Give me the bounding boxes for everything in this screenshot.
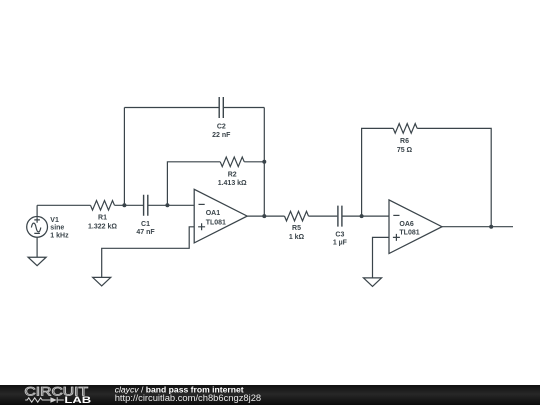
- svg-text:V1: V1: [50, 217, 59, 224]
- svg-text:http://circuitlab.com/ch8b6cng: http://circuitlab.com/ch8b6cngz8j28: [115, 392, 261, 403]
- wire C2 loop top left: [124, 107, 218, 109]
- resistor R1: [91, 201, 115, 211]
- svg-text:R2: R2: [228, 171, 237, 178]
- wire C3 to OA6 minus: [343, 215, 390, 217]
- resistor R6: [393, 124, 417, 134]
- footer bar: [0, 385, 540, 405]
- junction node after R1: [122, 203, 126, 207]
- voltage source V1: [27, 217, 48, 238]
- svg-text:1 kHz: 1 kHz: [50, 232, 69, 239]
- svg-text:47 nF: 47 nF: [136, 229, 155, 236]
- wire R6 right to output: [417, 128, 491, 226]
- capacitor C3: [338, 206, 342, 227]
- wire C1 to OA1 minus: [148, 204, 194, 206]
- wire V1 to R1: [37, 204, 90, 206]
- ground below OA1 plus: [93, 277, 111, 286]
- op-amp OA6: [389, 200, 442, 254]
- junction node C3 right: [360, 214, 364, 218]
- junction node R2 right: [262, 160, 266, 164]
- ground below OA6 plus: [364, 278, 382, 287]
- junction node OA1 output: [262, 214, 266, 218]
- wire V1 to ground: [36, 237, 38, 257]
- wire OA6 plus input to ground: [373, 237, 390, 278]
- svg-text:C1: C1: [141, 221, 150, 228]
- wire OA1 plus input to ground: [102, 227, 195, 278]
- svg-text:LAB: LAB: [64, 395, 91, 405]
- junction node after C1: [165, 203, 169, 207]
- svg-text:1 µF: 1 µF: [333, 240, 348, 247]
- wire R2 left: [167, 162, 220, 206]
- wire R6 loop left vertical: [362, 128, 394, 216]
- svg-text:OA6: OA6: [399, 221, 414, 228]
- resistor R2: [220, 157, 244, 167]
- wire OA6 output: [442, 226, 513, 228]
- svg-text:TL081: TL081: [206, 220, 226, 227]
- svg-text:1 kΩ: 1 kΩ: [289, 234, 305, 241]
- wire C2 loop right vertical: [263, 108, 265, 217]
- wire R5 to C3: [309, 215, 338, 217]
- wire OA1 output: [247, 215, 284, 217]
- wire C2 loop left vertical: [123, 108, 125, 206]
- op-amp OA1: [194, 189, 247, 243]
- ground below V1: [28, 257, 46, 266]
- svg-text:1.413 kΩ: 1.413 kΩ: [218, 180, 247, 187]
- svg-text:R6: R6: [400, 138, 409, 145]
- svg-text:R5: R5: [292, 225, 301, 232]
- svg-text:22 nF: 22 nF: [212, 132, 231, 139]
- capacitor C1: [144, 195, 148, 216]
- svg-text:C2: C2: [217, 124, 226, 131]
- CircuitLab logo symbol: resistor-diode line: [25, 397, 64, 403]
- svg-text:C3: C3: [335, 231, 344, 238]
- wire C2 loop top right: [224, 107, 264, 109]
- svg-text:sine: sine: [50, 225, 64, 232]
- svg-text:75 Ω: 75 Ω: [397, 147, 413, 154]
- wire R2 right: [244, 161, 264, 163]
- svg-text:R1: R1: [98, 215, 107, 222]
- svg-text:TL081: TL081: [399, 229, 419, 236]
- svg-text:OA1: OA1: [206, 210, 221, 217]
- resistor R5: [285, 211, 309, 221]
- capacitor C2: [219, 97, 223, 118]
- svg-text:1.322 kΩ: 1.322 kΩ: [88, 223, 117, 230]
- wire V1 top riser: [36, 205, 38, 216]
- wire R1 to C1: [115, 204, 144, 206]
- junction node OA6 output: [489, 225, 493, 229]
